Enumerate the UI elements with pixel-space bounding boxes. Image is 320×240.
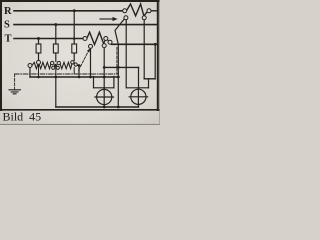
junction dots <box>37 9 157 108</box>
node chain mid <box>54 64 57 67</box>
wire fuse F1 to chain <box>38 53 40 61</box>
terminal chain cluster2 a <box>71 61 74 64</box>
svg-text:S: S <box>4 20 10 31</box>
instrument M2 frame top <box>127 87 149 89</box>
tap chain cluster1 b <box>56 66 59 69</box>
tap T-rheostat outer <box>108 40 112 44</box>
wire S line <box>14 24 157 26</box>
tap chain cluster2 b <box>74 63 77 66</box>
wire R line <box>14 10 123 12</box>
terminal R-rheostat left <box>123 9 127 13</box>
svg-text:R: R <box>4 6 12 17</box>
wire fuse F2 to chain <box>55 53 57 61</box>
wire T-rheostat right tap down <box>103 48 105 68</box>
terminal chain left <box>28 64 32 68</box>
node T crossing x74 <box>73 37 76 40</box>
wire fuse F3 to chain <box>73 53 75 60</box>
tap T-rheostat right <box>102 44 106 48</box>
wire horizontal tap link <box>104 66 138 68</box>
terminal T-rheostat left <box>83 37 87 41</box>
node chain right <box>78 64 81 67</box>
photo edge shading bottom <box>0 124 160 125</box>
frame left border <box>0 0 2 110</box>
wire M1 center vertical <box>103 67 105 89</box>
terminal circles (open) <box>28 9 151 70</box>
ground bars <box>9 90 21 94</box>
frame right border <box>157 0 159 110</box>
wire T-rheostat left tap down to bus <box>90 48 92 77</box>
rheostat T zigzag <box>87 32 104 44</box>
wire drop T to fuse F1 <box>38 39 40 45</box>
fuse F2 <box>53 44 58 53</box>
fuse F3 <box>72 44 77 53</box>
wire R-rheostat left tap long drop <box>125 20 127 88</box>
node collector x155 <box>154 43 157 46</box>
instrument M2 circle <box>131 89 146 104</box>
rheostat R zigzag <box>126 4 143 16</box>
node bus x118 <box>117 76 120 79</box>
node bus x104 <box>103 76 106 79</box>
instrument M1 cross <box>95 88 114 106</box>
terminal R-rheostat right <box>147 9 151 13</box>
instrument M1 frame legs <box>94 77 114 88</box>
tap chain cluster1 a <box>52 66 55 69</box>
svg-text:Bild 45: Bild 45 <box>3 110 42 124</box>
wire collector line to border <box>112 43 158 45</box>
node R-drop <box>73 9 76 12</box>
node taplink x104 <box>103 66 106 69</box>
slider tick F2 <box>55 67 57 78</box>
wire from R tap diagonal down to x118 line <box>115 19 125 107</box>
resistor chain (starter resistor) zigzag <box>32 62 51 68</box>
node taplink x118 <box>117 66 120 69</box>
svg-text:T: T <box>5 34 12 45</box>
arrow direction indicator <box>100 18 113 20</box>
wire bus drop to bottom <box>55 77 57 107</box>
instrument M2 frame legs <box>148 79 150 88</box>
wire chain left end down to bus <box>29 68 31 78</box>
tap R-rheostat left <box>124 16 128 20</box>
wire M2 center vertical from tap link <box>138 67 140 89</box>
terminal chain cluster1 b <box>57 61 60 64</box>
rheostat R right diagonal to terminal <box>144 11 147 15</box>
wire R line right stub <box>151 10 157 12</box>
wire M1 bottom to bottom bus <box>103 105 105 107</box>
slider arrow head T-rheostat <box>87 48 91 52</box>
slider tick F1 <box>38 66 40 78</box>
node bottombus M1 <box>103 106 106 109</box>
fuse F1 <box>36 44 41 53</box>
rheostat T right diagonal to terminal <box>104 39 106 43</box>
node bus x79 <box>78 76 81 79</box>
wire link x144 to x155 <box>144 78 155 80</box>
node S-drop <box>54 23 57 26</box>
rheostat T slider dashed diagonal <box>78 49 89 71</box>
terminal chain cluster1 a <box>51 61 54 64</box>
node bus x90.5 <box>89 76 92 79</box>
wire R-rheostat right tap drop <box>143 20 145 79</box>
frame bottom border <box>0 109 160 111</box>
arrow head <box>113 17 118 21</box>
tap T-rheostat left <box>89 44 93 48</box>
instrument M2 cross <box>129 88 148 106</box>
bottom bus under chain <box>30 76 118 78</box>
node bus x38.5 <box>37 76 40 79</box>
wire T line left <box>14 38 83 40</box>
terminal T-rheostat right <box>104 37 108 41</box>
wire right edge drop <box>154 44 156 79</box>
instrument M1 frame top <box>94 87 114 89</box>
dashed drop to ground <box>14 74 16 90</box>
tap R-rheostat right <box>142 16 146 20</box>
wire M2 bottom stub <box>138 105 140 107</box>
wire T-rheostat terminal to collector diagonal <box>107 40 112 45</box>
wire drop S to fuse F2 <box>55 25 57 44</box>
dashed linkage vertical x117 <box>116 48 118 74</box>
paper background <box>0 0 160 125</box>
mechanical dash-dot linkage line <box>15 73 119 75</box>
resistor chain middle section <box>60 62 72 68</box>
wire bottom bus <box>56 106 139 108</box>
node T-drop <box>37 37 40 40</box>
photo edge shading right <box>158 0 161 125</box>
instrument M1 circle <box>97 89 112 104</box>
node bottombus x118 <box>117 106 120 109</box>
resistor chain right tail to node <box>74 64 80 66</box>
terminal chain under F1 <box>37 60 41 64</box>
frame top border <box>0 0 159 2</box>
node bus x56 <box>54 76 57 79</box>
slider tick F3 <box>73 68 75 74</box>
wire drop R to fuse F3 <box>73 11 75 44</box>
wire chain right end down to bus <box>78 66 80 78</box>
